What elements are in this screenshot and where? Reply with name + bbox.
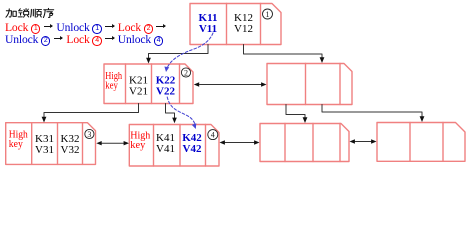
node 2 (internal left) [104,64,193,104]
K32 V32 label [61,133,80,156]
wire root to node2 [149,45,209,59]
leafB divider K42|ptr [205,125,207,167]
right internal divider 2 [339,64,341,105]
leaf A (page 3) [6,123,96,165]
leaf D (empty) [377,123,465,162]
svg-text:V41: V41 [156,143,175,155]
dashed arrowhead at K42 [192,123,197,129]
svg-text:3: 3 [87,130,91,139]
sibling link leafC and leafD [354,141,373,143]
page number 4 in leafB [208,130,218,140]
svg-text:V31: V31 [35,144,54,156]
leafD divider 1 [409,123,411,162]
leafA divider K32|ptr [82,123,84,165]
dashed arrowhead at K22 [164,67,169,73]
root divider 2 [260,4,262,45]
svg-text:4: 4 [211,131,215,140]
page number 1 in root [263,9,273,19]
page number 3 in leafA [85,129,94,138]
leafC divider 3 [339,124,341,162]
leafA divider High|K31 [31,123,33,165]
序 [43,8,53,17]
svg-text:key: key [105,80,118,91]
arrowhead into leafD top [420,116,425,122]
wire right internal to leafD [322,105,422,118]
arrowhead right into leafC left edge [254,140,259,144]
K41 V41 label [156,132,175,155]
leaf C (empty) [260,124,349,162]
svg-text:V11: V11 [199,23,217,35]
leafA divider K31|K32 [57,123,59,165]
leafB divider High|K41 [153,125,155,167]
dashed search path 1 (V11 to K22) [166,33,213,70]
lock order text line 2 [5,22,167,35]
K22 V22 label [156,75,176,98]
arrowhead into leafA top [42,117,47,123]
K42 V42 label [182,132,202,155]
arrowhead right into right-internal left edge [261,82,266,86]
K11 V11 label [199,12,218,35]
dashed search path 2 (V22 to K42) [167,97,195,126]
node2 divider K22|ptr [179,64,181,104]
sibling link leafA and leafB [102,142,125,144]
arrowhead right into leafD left edge [371,139,376,143]
K12 V12 label [234,12,253,35]
svg-text:key: key [9,139,23,150]
node internal right (empty) [267,64,352,105]
arrowhead into leafB top [172,118,177,124]
arrowhead left into leafA right edge [96,141,101,145]
arrowhead left into leafB right edge [220,140,225,144]
K21 V21 label [129,75,148,98]
arrowhead left into leafC right edge [350,139,355,143]
circled page numbers [85,9,273,140]
svg-text:V22: V22 [156,86,175,98]
root divider 1 [226,4,228,45]
leafD divider 2 [442,123,444,162]
顺 [31,9,42,17]
arrowhead left into node2 right edge [194,82,199,86]
arrowheads (black) [42,57,425,145]
svg-text:V32: V32 [61,144,80,156]
sibling link leafB and leafC [224,142,255,144]
leaf B (page 4) [129,125,219,167]
node root (page 1) [190,4,281,45]
title 加锁顺序 (hand-drawn CJK strokes) [6,8,54,17]
svg-text:V42: V42 [183,143,202,155]
加 [6,9,16,17]
svg-text:key: key [130,140,145,151]
sibling link node2 and right internal [200,84,262,86]
leafC divider 1 [284,124,286,162]
锁 [18,9,28,18]
arrowhead into leafC top [303,117,308,123]
right internal divider 1 [305,64,307,105]
page number 2 in node2 [181,68,190,77]
svg-text:K42: K42 [182,132,202,144]
arrowhead into right internal top [320,57,325,63]
wire root to right internal [244,45,323,59]
lock order text line 3 [5,34,163,47]
svg-text:2: 2 [184,68,188,77]
High key labels [9,71,151,151]
svg-text:1: 1 [266,10,270,19]
leafC divider 2 [312,124,314,162]
svg-text:K41: K41 [156,132,175,144]
svg-text:V21: V21 [129,86,148,98]
arrowhead right into leafB left edge [124,141,129,145]
node2 divider High|K21 [125,64,127,104]
wire node2 to leafA [44,104,139,118]
arrowhead into node2 top [146,58,151,64]
K31 V31 label [35,133,54,156]
wire node2 to leafB [166,104,175,119]
wire right internal to leafC [286,105,305,119]
node2 divider K21|K22 [151,64,153,104]
leafB divider K41|K42 [179,125,181,167]
svg-text:V12: V12 [234,23,253,35]
